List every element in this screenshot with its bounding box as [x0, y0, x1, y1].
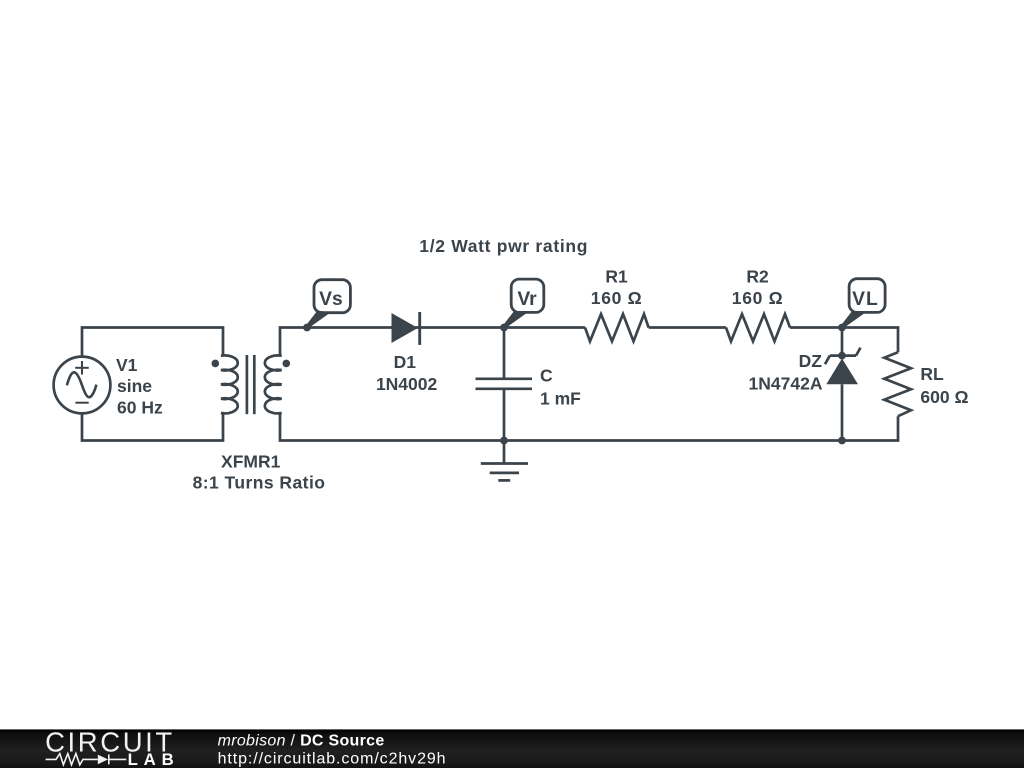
svg-text:8:1 Turns Ratio: 8:1 Turns Ratio — [193, 472, 326, 492]
svg-text:Vs: Vs — [319, 289, 343, 310]
svg-text:1 mF: 1 mF — [540, 388, 581, 408]
svg-text:160 Ω: 160 Ω — [591, 288, 643, 308]
svg-text:160 Ω: 160 Ω — [732, 288, 784, 308]
svg-text:sine: sine — [117, 376, 152, 396]
svg-text:http://circuitlab.com/c2hv29h: http://circuitlab.com/c2hv29h — [218, 750, 447, 767]
svg-text:Vr: Vr — [517, 289, 537, 310]
svg-text:RL: RL — [920, 364, 944, 384]
svg-text:V1: V1 — [116, 355, 138, 375]
svg-text:LAB: LAB — [128, 750, 180, 768]
svg-text:600 Ω: 600 Ω — [920, 387, 968, 407]
svg-text:R2: R2 — [746, 267, 769, 287]
svg-text:DZ: DZ — [799, 351, 823, 371]
svg-text:1N4742A: 1N4742A — [749, 373, 823, 393]
svg-text:XFMR1: XFMR1 — [221, 452, 281, 472]
svg-text:60 Hz: 60 Hz — [117, 398, 163, 418]
svg-text:D1: D1 — [394, 352, 417, 372]
svg-text:1N4002: 1N4002 — [376, 374, 438, 394]
svg-text:VL: VL — [852, 289, 879, 310]
svg-text:C: C — [540, 366, 553, 386]
svg-text:mrobison / DC Source: mrobison / DC Source — [218, 732, 385, 749]
svg-text:1/2 Watt pwr rating: 1/2 Watt pwr rating — [419, 236, 588, 256]
svg-text:R1: R1 — [605, 267, 628, 287]
